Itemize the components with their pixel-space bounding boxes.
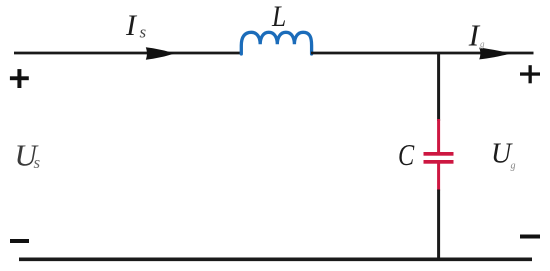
polarity + left bbox=[10, 69, 29, 88]
svg-text:L: L bbox=[271, 0, 286, 33]
wire: top rail left segment bbox=[14, 52, 242, 55]
polarity - left bbox=[10, 239, 29, 243]
current arrow Ig bbox=[479, 48, 511, 60]
wire: C branch upper (black) bbox=[437, 52, 440, 121]
current arrow Is bbox=[146, 47, 175, 60]
svg-text:I: I bbox=[468, 17, 481, 52]
svg-text:g: g bbox=[480, 39, 485, 49]
polarity + right bbox=[520, 65, 540, 83]
wire: top rail right segment bbox=[311, 52, 534, 55]
polarity - right bbox=[520, 235, 540, 239]
wire: C branch lower (black) bbox=[437, 190, 440, 261]
svg-text:s: s bbox=[140, 23, 147, 42]
svg-text:s: s bbox=[34, 153, 41, 172]
svg-text:C: C bbox=[398, 137, 414, 172]
inductor L bbox=[241, 32, 311, 54]
svg-text:g: g bbox=[511, 161, 516, 172]
svg-text:I: I bbox=[125, 9, 138, 42]
capacitor C bbox=[424, 119, 454, 191]
wire: bottom rail bbox=[19, 257, 532, 261]
